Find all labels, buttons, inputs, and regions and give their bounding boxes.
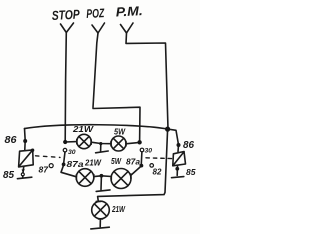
- svg-text:21W: 21W: [111, 205, 126, 214]
- svg-text:STOP: STOP: [51, 7, 80, 23]
- svg-text:21W: 21W: [72, 125, 95, 134]
- svg-text:82: 82: [153, 168, 162, 177]
- svg-text:30: 30: [68, 149, 76, 156]
- svg-text:85: 85: [186, 167, 196, 177]
- svg-text:5W: 5W: [114, 128, 126, 137]
- svg-text:P.M.: P.M.: [115, 3, 143, 19]
- svg-text:85: 85: [3, 170, 14, 181]
- svg-text:86: 86: [183, 140, 194, 151]
- svg-text:POZ: POZ: [86, 6, 106, 21]
- svg-text:5W: 5W: [111, 157, 122, 166]
- svg-text:87a: 87a: [67, 160, 85, 169]
- svg-text:21W: 21W: [84, 159, 102, 168]
- svg-text:87a: 87a: [126, 158, 141, 167]
- svg-text:30: 30: [145, 148, 153, 155]
- svg-text:86: 86: [5, 134, 17, 146]
- svg-text:87: 87: [39, 165, 50, 175]
